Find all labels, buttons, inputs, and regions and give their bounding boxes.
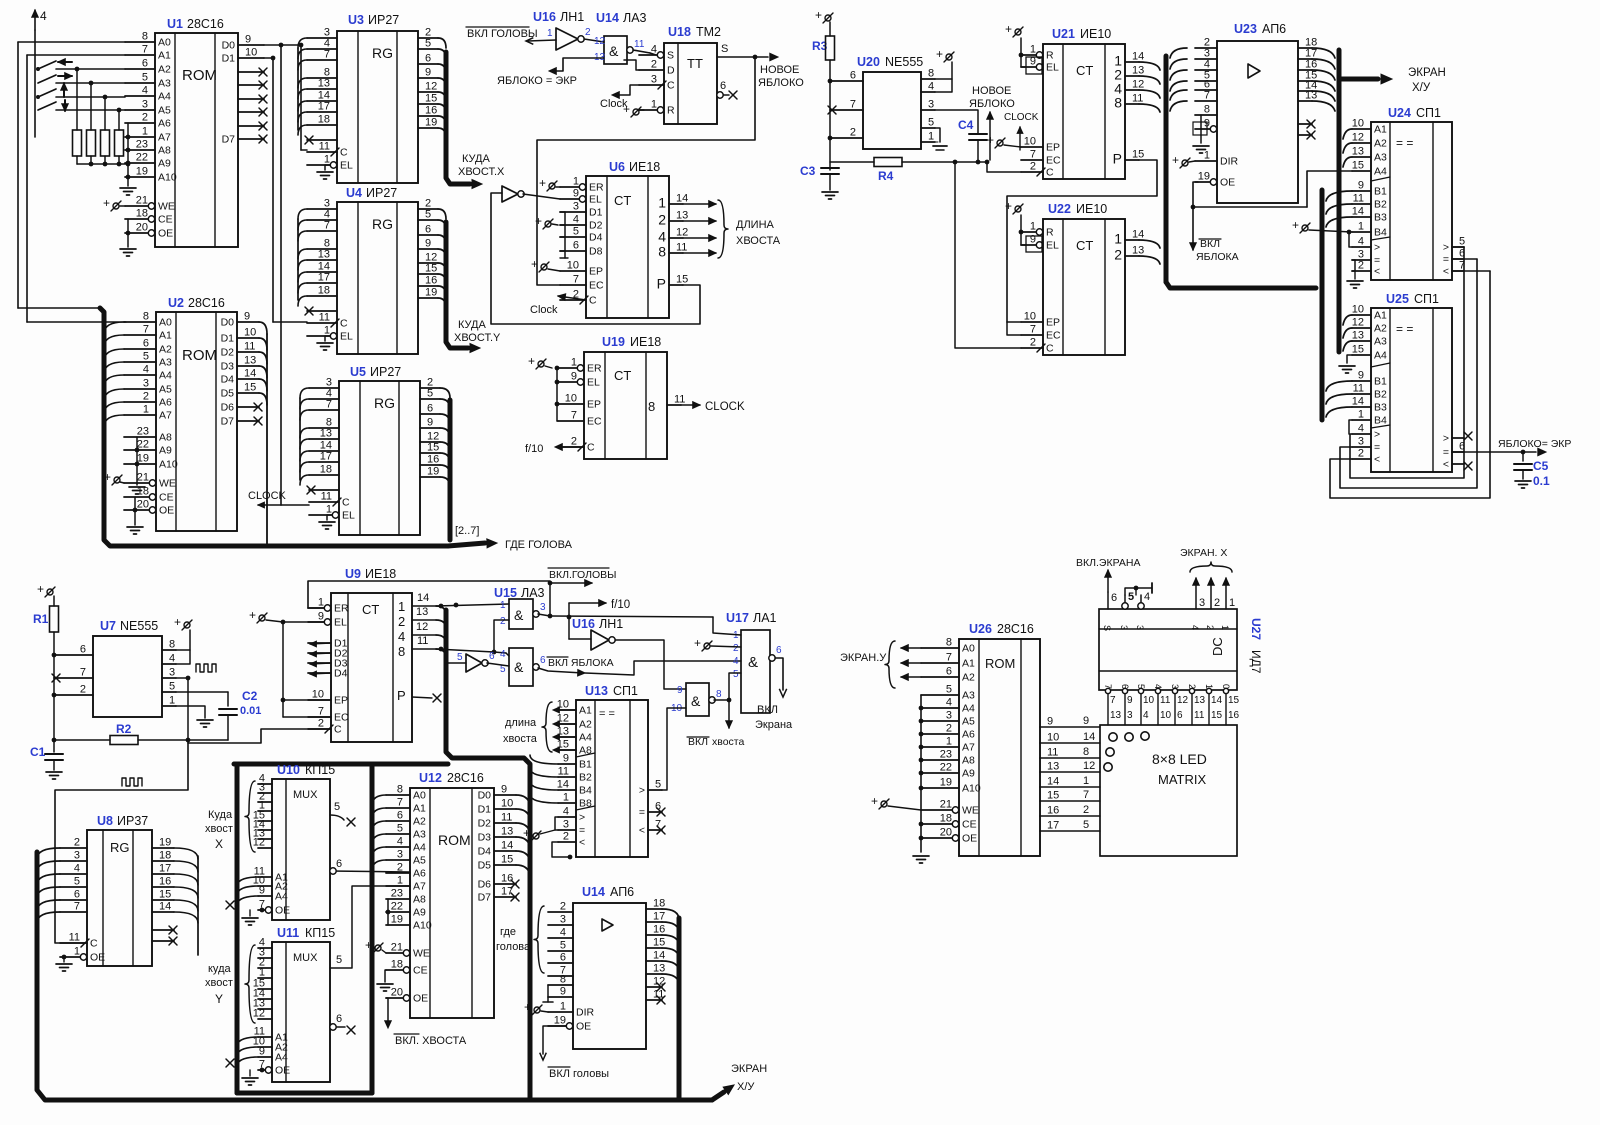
svg-text:0.01: 0.01	[240, 705, 261, 717]
svg-text:хвост: хвост	[205, 823, 233, 835]
svg-text:A9: A9	[413, 907, 426, 919]
svg-text:+: +	[1005, 22, 1012, 36]
svg-text:Clock: Clock	[530, 304, 558, 316]
svg-text:U4: U4	[346, 186, 362, 200]
svg-text:9: 9	[259, 885, 265, 897]
U17 pin2 power	[704, 643, 710, 649]
IC U7 NE555	[93, 636, 162, 717]
svg-text:ИЕ10: ИЕ10	[1080, 27, 1111, 41]
svg-text:11: 11	[634, 39, 645, 50]
svg-text:WE: WE	[962, 805, 979, 817]
U13 A arrows + brace	[558, 709, 576, 711]
svg-text:A3: A3	[413, 829, 426, 841]
svg-text:7: 7	[74, 901, 80, 913]
svg-text:5: 5	[169, 681, 175, 693]
U18 pin6	[717, 94, 729, 96]
U10 OE ground	[249, 910, 251, 916]
svg-text:U1: U1	[167, 17, 183, 31]
svg-text:2: 2	[571, 436, 577, 448]
LED dots	[1109, 733, 1117, 741]
svg-text:6: 6	[560, 952, 566, 964]
svg-text:C2: C2	[242, 689, 258, 703]
svg-text:U9: U9	[345, 567, 361, 581]
IC U19 IE18	[584, 352, 667, 459]
svg-text:+: +	[871, 794, 878, 808]
svg-text:23: 23	[391, 888, 403, 900]
svg-text:B3: B3	[1374, 402, 1387, 414]
svg-text:A0: A0	[158, 37, 171, 49]
svg-text:11: 11	[321, 491, 332, 503]
svg-text:D3: D3	[221, 361, 235, 373]
VKL GOLOVY arrow	[549, 583, 551, 616]
svg-text:+: +	[37, 582, 44, 596]
svg-text:19: 19	[554, 1015, 566, 1027]
svg-text:4: 4	[1358, 236, 1364, 248]
svg-text:2: 2	[143, 391, 149, 403]
svg-text:1: 1	[563, 792, 569, 804]
svg-text:ROM: ROM	[182, 347, 217, 364]
svg-text:&: &	[691, 693, 701, 709]
8x8 LED matrix	[1100, 725, 1237, 856]
svg-text:A4: A4	[413, 842, 426, 854]
svg-text:куда: куда	[208, 963, 231, 975]
svg-text:3: 3	[397, 849, 403, 861]
svg-text:2: 2	[318, 718, 324, 730]
inverter out to tail gate	[615, 640, 686, 689]
svg-text:7: 7	[571, 410, 577, 422]
svg-text:18: 18	[318, 114, 330, 126]
svg-text:ЯБЛОКО = ЭКР: ЯБЛОКО = ЭКР	[497, 75, 577, 87]
svg-text:A5: A5	[413, 855, 426, 867]
svg-text:ЭКРАН: ЭКРАН	[731, 1063, 767, 1075]
svg-text:7: 7	[1110, 695, 1116, 706]
svg-text:9: 9	[1083, 715, 1089, 727]
svg-text:+: +	[249, 608, 256, 622]
svg-text:B1: B1	[1374, 186, 1387, 198]
svg-text:5: 5	[397, 823, 403, 835]
svg-text:13: 13	[1132, 65, 1144, 77]
U26 data wires to matrix	[1040, 726, 1100, 728]
svg-text:11: 11	[417, 635, 428, 647]
svg-text:Экрана: Экрана	[755, 719, 793, 731]
svg-text:10: 10	[1352, 118, 1364, 130]
svg-text:= =: = =	[1396, 136, 1413, 150]
svg-text:16: 16	[427, 454, 439, 466]
U3 input fan bus	[297, 48, 299, 130]
svg-text:A2: A2	[159, 344, 172, 356]
svg-text:хвост: хвост	[205, 977, 233, 989]
svg-text:11: 11	[1047, 747, 1058, 759]
svg-text:8: 8	[658, 244, 666, 260]
svg-text:9: 9	[571, 371, 577, 383]
svg-text:9: 9	[1358, 180, 1364, 192]
svg-text:R1: R1	[33, 612, 49, 626]
svg-text:A2: A2	[1374, 138, 1387, 150]
svg-text:D1: D1	[478, 804, 492, 816]
svg-text:2: 2	[733, 643, 739, 654]
svg-text:ROM: ROM	[985, 656, 1015, 671]
U9 output fan into thick bus	[436, 606, 446, 615]
svg-text:7: 7	[1083, 789, 1089, 801]
U26 A0-A2 arrows EKRAN Y	[901, 645, 908, 652]
svg-text:17: 17	[653, 911, 665, 923]
svg-text:11: 11	[319, 141, 330, 153]
svg-text:<: <	[1443, 266, 1449, 278]
svg-text:7: 7	[655, 819, 661, 831]
svg-text:11: 11	[1353, 383, 1364, 395]
IC U21 IE10 counter	[1043, 44, 1125, 179]
U3 EL ground	[325, 164, 330, 166]
svg-text:&: &	[609, 43, 619, 59]
svg-text:5: 5	[425, 38, 431, 50]
svg-text:B4: B4	[1374, 415, 1387, 427]
U13 compare tie pins	[555, 817, 558, 830]
svg-text:6: 6	[427, 403, 433, 415]
svg-text:C5: C5	[1533, 459, 1549, 473]
svg-text:17: 17	[159, 863, 171, 875]
svg-text:16: 16	[425, 275, 437, 287]
svg-text:= =: = =	[599, 708, 615, 720]
svg-text:5: 5	[1128, 591, 1134, 603]
svg-text:OE: OE	[158, 228, 173, 240]
svg-text:U12: U12	[419, 771, 442, 785]
svg-text:D7: D7	[222, 134, 236, 146]
svg-text:3: 3	[143, 378, 149, 390]
svg-text:ЭКРАН.У: ЭКРАН.У	[840, 652, 887, 664]
svg-text:ЯБЛОКО= ЭКР: ЯБЛОКО= ЭКР	[1498, 438, 1571, 450]
IC U3 register	[337, 31, 418, 183]
svg-text:8: 8	[560, 974, 566, 986]
svg-text:22: 22	[391, 901, 403, 913]
svg-text:19: 19	[940, 777, 952, 789]
svg-text:4: 4	[142, 85, 148, 97]
U2 CE OE tie	[134, 497, 136, 525]
svg-text:14: 14	[1352, 396, 1364, 408]
svg-text:1: 1	[398, 599, 405, 614]
svg-text:CT: CT	[614, 368, 631, 383]
svg-text:8: 8	[397, 784, 403, 796]
svg-text:9: 9	[573, 188, 579, 200]
svg-text:14: 14	[676, 193, 688, 205]
U6 EP power	[541, 264, 547, 270]
svg-text:СП1: СП1	[1414, 292, 1439, 306]
svg-text:7: 7	[397, 797, 403, 809]
svg-text:ВКЛ: ВКЛ	[1200, 238, 1220, 250]
svg-text:U22: U22	[1048, 202, 1071, 216]
svg-text:13: 13	[318, 78, 330, 90]
svg-text:7: 7	[142, 44, 148, 56]
svg-text:2: 2	[80, 684, 86, 696]
svg-text:10: 10	[1352, 304, 1364, 316]
U11 pin5 out to U12 A7	[330, 886, 410, 968]
svg-text:TT: TT	[687, 56, 703, 71]
svg-text:D7: D7	[221, 416, 235, 428]
svg-text:2: 2	[651, 59, 657, 71]
svg-text:8: 8	[716, 689, 722, 700]
svg-text:EP: EP	[334, 695, 348, 707]
svg-text:2: 2	[658, 212, 666, 228]
U17 output VKL EKRANA	[775, 658, 783, 690]
svg-text:A4: A4	[159, 370, 172, 382]
U23 output fan to ekran bus	[1312, 48, 1335, 58]
svg-text:CT: CT	[1076, 63, 1093, 78]
svg-text:C4: C4	[958, 118, 974, 132]
power arrow node 4	[34, 10, 36, 30]
U12 OE arrow VKL HVOSTA	[386, 998, 388, 1024]
svg-text:D1: D1	[221, 333, 235, 345]
svg-text:15: 15	[1228, 695, 1240, 706]
U21 P wire down to U22 region	[1007, 160, 1157, 322]
svg-text:U11: U11	[277, 926, 299, 940]
U22 EP EC loop	[1007, 321, 1021, 323]
C5 capacitor	[1522, 452, 1524, 461]
svg-text:U17: U17	[726, 611, 749, 625]
U5 EL ground	[327, 514, 332, 516]
svg-text:+: +	[694, 636, 701, 650]
svg-text:7: 7	[946, 652, 952, 664]
svg-text:10: 10	[1024, 311, 1036, 323]
svg-text:ХВОСТ.X: ХВОСТ.X	[458, 166, 505, 178]
svg-text:DIR: DIR	[576, 1007, 595, 1019]
svg-text:A4: A4	[1374, 350, 1387, 362]
svg-text:R4: R4	[878, 169, 894, 183]
svg-text:OE: OE	[275, 1065, 290, 1077]
svg-text:11: 11	[69, 932, 80, 944]
svg-text:ИР37: ИР37	[117, 814, 148, 828]
svg-text:ROM: ROM	[438, 832, 471, 848]
U10 A fan from frame	[237, 877, 258, 887]
svg-text:EC: EC	[589, 280, 604, 292]
svg-text:19: 19	[391, 914, 403, 926]
svg-text:3: 3	[928, 99, 934, 111]
svg-text:1: 1	[1204, 150, 1210, 162]
svg-text:14: 14	[1132, 51, 1144, 63]
svg-text:13: 13	[318, 249, 330, 261]
svg-text:7: 7	[850, 99, 856, 111]
svg-text:<: <	[1443, 459, 1449, 471]
svg-text:ИР27: ИР27	[368, 13, 399, 27]
svg-text:28C16: 28C16	[997, 622, 1034, 636]
svg-text:2: 2	[1030, 161, 1036, 173]
svg-text:EL: EL	[1046, 62, 1059, 74]
U18 R wire power	[639, 109, 644, 111]
svg-text:6: 6	[397, 810, 403, 822]
arrow left	[58, 61, 72, 63]
svg-text:5: 5	[655, 779, 661, 791]
U14a out to U18 S	[633, 50, 650, 53]
svg-text:A0: A0	[413, 790, 426, 802]
svg-text:EL: EL	[589, 194, 602, 206]
svg-text:6: 6	[74, 889, 80, 901]
svg-text:11: 11	[676, 242, 687, 254]
f/10 arrow	[568, 603, 570, 617]
svg-text:16: 16	[501, 873, 513, 885]
svg-text:17: 17	[318, 101, 330, 113]
U1 CE OE tie	[127, 219, 129, 247]
svg-text:EC: EC	[1046, 330, 1061, 342]
IC U23 AP6 buffer	[1217, 41, 1298, 203]
wire D0 to U3 C	[300, 45, 302, 150]
svg-text:8: 8	[398, 644, 405, 659]
svg-text:+: +	[174, 615, 181, 629]
U5 input fan bus	[299, 398, 301, 480]
svg-text:B3: B3	[1374, 212, 1387, 224]
svg-text:ГДЕ ГОЛОВА: ГДЕ ГОЛОВА	[505, 539, 573, 551]
svg-text:NE555: NE555	[120, 619, 158, 633]
svg-text:6: 6	[425, 224, 431, 236]
svg-text:2: 2	[1083, 804, 1089, 816]
gate pin4 from out8	[506, 653, 509, 656]
U19 C f/10	[558, 446, 584, 448]
svg-text:4: 4	[1144, 591, 1150, 603]
IC U27 ID7 decoder	[1099, 609, 1237, 690]
U11 pin6 x	[330, 1026, 345, 1028]
svg-text:10: 10	[1160, 710, 1172, 721]
svg-text:16: 16	[159, 876, 171, 888]
U1 WE power	[113, 203, 119, 209]
svg-text:19: 19	[159, 837, 171, 849]
svg-text:15: 15	[1352, 160, 1364, 172]
svg-text:A1: A1	[962, 658, 975, 670]
svg-text:15: 15	[676, 274, 688, 286]
svg-text:EL: EL	[340, 160, 353, 172]
svg-text:6: 6	[1177, 710, 1183, 721]
svg-text:C3: C3	[800, 164, 816, 178]
svg-text:13: 13	[244, 355, 256, 367]
svg-text:ВКЛ: ВКЛ	[757, 704, 778, 716]
svg-text:5: 5	[142, 72, 148, 84]
svg-text:23: 23	[940, 749, 952, 761]
svg-text:1: 1	[946, 736, 952, 748]
svg-text:WE: WE	[413, 948, 430, 960]
svg-text:ИР27: ИР27	[370, 365, 401, 379]
svg-text:ЛА3: ЛА3	[521, 586, 545, 600]
svg-text:D0: D0	[221, 317, 235, 329]
svg-text:2: 2	[74, 837, 80, 849]
svg-text:3: 3	[142, 99, 148, 111]
svg-text:WE: WE	[159, 478, 176, 490]
U14 output fan into thick bus	[662, 909, 679, 920]
svg-text:15: 15	[1211, 710, 1223, 721]
svg-text:9: 9	[318, 611, 324, 623]
svg-text:4: 4	[398, 629, 405, 644]
svg-text:ВКЛ ГОЛОВЫ: ВКЛ ГОЛОВЫ	[467, 28, 538, 40]
svg-text:9: 9	[1127, 695, 1133, 706]
svg-text:6: 6	[946, 666, 952, 678]
svg-text:18: 18	[159, 850, 171, 862]
svg-text:A2: A2	[158, 64, 171, 76]
svg-text:A3: A3	[158, 78, 171, 90]
svg-text:15: 15	[159, 889, 171, 901]
clock wire right to U9 C	[188, 729, 331, 743]
svg-text:OE: OE	[576, 1021, 591, 1033]
svg-text:13: 13	[1110, 710, 1122, 721]
svg-text:1: 1	[324, 154, 330, 166]
U15 pin2 riser	[494, 620, 509, 652]
svg-text:13: 13	[676, 210, 688, 222]
svg-text:<: <	[1374, 454, 1380, 466]
svg-text:C: C	[667, 80, 675, 92]
svg-text:3: 3	[169, 667, 175, 679]
svg-text:A4: A4	[158, 91, 171, 103]
svg-text:9: 9	[501, 784, 507, 796]
U7 pin5 to C2	[176, 691, 228, 693]
svg-text:5: 5	[74, 876, 80, 888]
U17 pin1 wire	[713, 617, 741, 635]
svg-text:19: 19	[425, 117, 437, 129]
svg-text:A1: A1	[413, 803, 426, 815]
svg-text:КУДА: КУДА	[458, 319, 486, 331]
U9 D input arrows	[310, 641, 316, 647]
svg-text:12: 12	[253, 1008, 265, 1020]
svg-text:S: S	[667, 50, 674, 62]
svg-text:MUX: MUX	[293, 952, 318, 964]
svg-text:14: 14	[159, 901, 171, 913]
wire out8 row	[436, 649, 494, 652]
svg-text:ER: ER	[334, 603, 349, 615]
svg-text:ЭКРАН: ЭКРАН	[1408, 67, 1446, 79]
svg-text:B2: B2	[1374, 199, 1387, 211]
svg-text:DIR: DIR	[1220, 156, 1239, 168]
svg-text:9: 9	[425, 238, 431, 250]
svg-text:X/У: X/У	[737, 1081, 755, 1093]
svg-text:ИЕ18: ИЕ18	[630, 335, 661, 349]
svg-text:11: 11	[653, 989, 664, 1001]
svg-text:2: 2	[946, 723, 952, 735]
svg-text:X: X	[215, 837, 223, 851]
svg-text:C: C	[340, 147, 348, 159]
U13 B fan from bus	[530, 755, 558, 764]
svg-text:6: 6	[142, 58, 148, 70]
svg-text:9: 9	[259, 1046, 265, 1058]
svg-text:10: 10	[245, 47, 257, 59]
svg-text:18: 18	[136, 208, 148, 220]
svg-text:U19: U19	[602, 335, 625, 349]
svg-text:11: 11	[558, 766, 569, 778]
svg-text:6: 6	[1111, 592, 1117, 604]
svg-text:где: где	[500, 926, 516, 938]
svg-text:12: 12	[676, 227, 688, 239]
svg-text:R: R	[1046, 50, 1054, 62]
U4 input fan bus	[297, 219, 299, 300]
svg-text:D5: D5	[221, 388, 235, 400]
U4 output fan to thick bus	[438, 209, 446, 219]
svg-text:X/У: X/У	[1412, 82, 1431, 94]
svg-text:A0: A0	[962, 643, 975, 655]
svg-text:20: 20	[940, 827, 952, 839]
svg-text:1: 1	[74, 946, 80, 958]
svg-text:голова: голова	[496, 941, 531, 953]
svg-text:U3: U3	[348, 13, 364, 27]
svg-text:A9: A9	[158, 158, 171, 170]
svg-text:9: 9	[560, 986, 566, 998]
svg-text:4: 4	[40, 9, 47, 23]
svg-text:21: 21	[391, 942, 403, 954]
svg-text:1: 1	[397, 875, 403, 887]
big thick bus bottom loop	[37, 852, 712, 1100]
svg-text:+: +	[815, 8, 822, 22]
U1 A6-A10 rail to ground	[127, 123, 129, 186]
svg-text:C: C	[90, 938, 98, 950]
svg-text:>: >	[1443, 242, 1449, 254]
svg-text:13: 13	[501, 826, 513, 838]
svg-text:1: 1	[1220, 625, 1230, 630]
svg-text:3: 3	[560, 914, 566, 926]
svg-text:<: <	[1374, 266, 1380, 278]
svg-text:C: C	[340, 318, 348, 330]
svg-text:1: 1	[1358, 409, 1364, 421]
svg-text:&: &	[514, 607, 524, 623]
